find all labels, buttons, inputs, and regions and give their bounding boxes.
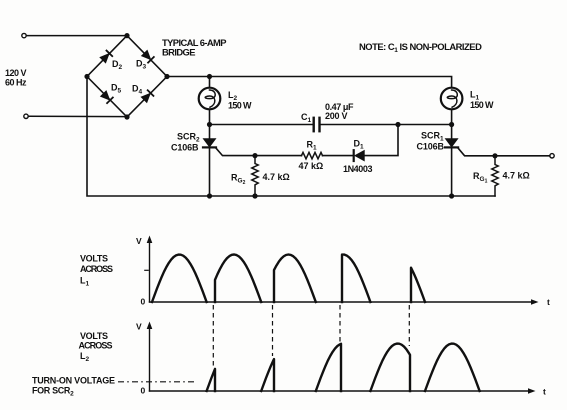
diode D3	[142, 50, 154, 62]
label VOLTS ACROSS L1	[80, 254, 113, 288]
label 0.47 uF 200 V	[325, 102, 354, 121]
label TYPICAL 6-AMP BRIDGE	[162, 37, 227, 58]
waveform L1 pulse 2	[215, 255, 261, 303]
svg-text:ACROSS: ACROSS	[80, 264, 113, 274]
svg-text:t: t	[543, 387, 546, 397]
wire D1 to C1 wire	[364, 125, 398, 156]
label t axis plot 1	[547, 297, 550, 307]
svg-text:ACROSS: ACROSS	[79, 340, 113, 350]
tick plot 1 y-axis mid	[145, 269, 148, 271]
label 0 plot 2	[141, 386, 146, 396]
lamp L1	[441, 88, 463, 110]
waveform L1 pulse 1	[152, 255, 207, 302]
waveform L1 pulse 3	[274, 255, 316, 303]
svg-text:t: t	[547, 297, 550, 307]
label D1	[354, 139, 365, 151]
SCR1 Q	[445, 125, 458, 197]
waveform L2 pulse 2	[261, 359, 274, 391]
node top rail L2 branch	[207, 74, 212, 79]
svg-text:1N4003: 1N4003	[343, 164, 373, 174]
label C1	[301, 112, 312, 124]
plot 1 x-axis	[150, 299, 539, 305]
svg-text:0: 0	[141, 386, 146, 396]
label VOLTS ACROSS L2	[79, 331, 113, 363]
resistor RG2	[252, 156, 258, 196]
SCR2 Q	[203, 125, 216, 197]
node D1 branch junction	[395, 122, 400, 127]
svg-text:VOLTS: VOLTS	[80, 331, 108, 341]
wire top input to bridge top node	[26, 35, 127, 37]
label t axis plot 2	[543, 387, 546, 397]
wire turn-on voltage dash-dot level line	[118, 381, 194, 383]
diode D2	[100, 51, 112, 63]
svg-text:4.7 kΩ: 4.7 kΩ	[263, 172, 290, 182]
svg-text:BRIDGE: BRIDGE	[162, 46, 196, 57]
label L2 150 W	[228, 90, 252, 111]
label V axis plot 2	[136, 322, 142, 332]
label SCR1 C106B	[417, 130, 445, 151]
svg-text:60 Hz: 60 Hz	[5, 78, 27, 88]
diode D4	[141, 90, 153, 102]
wire C1 left segment	[210, 124, 314, 126]
node bridge left junction	[84, 74, 89, 79]
wire R1 to D1	[323, 155, 354, 157]
wire L1 to anode node	[451, 109, 453, 124]
wire dashed timing line 1	[212, 305, 214, 367]
resistor RG1	[492, 156, 498, 196]
label R1	[307, 140, 318, 152]
capacitor C1	[314, 118, 320, 131]
node RG1 top junction	[492, 153, 497, 158]
diode D5	[101, 91, 113, 103]
label R1 value 47 kOhm	[299, 161, 324, 171]
label V axis plot 1	[136, 236, 142, 246]
diode D1	[354, 150, 365, 161]
node RG2 top junction	[252, 153, 257, 158]
svg-text:120 V: 120 V	[5, 68, 27, 78]
waveform L1 pulse 5	[411, 268, 425, 302]
plot 2 y-axis	[147, 322, 153, 392]
lamp L2	[199, 88, 221, 110]
label D5	[111, 83, 122, 95]
wire L2 to anode node	[209, 109, 211, 124]
svg-text:V: V	[136, 322, 142, 332]
label 120 V 60 Hz source	[5, 68, 27, 88]
svg-text:C106B: C106B	[171, 142, 199, 152]
label RG1 value 4.7 kOhm	[503, 171, 530, 181]
svg-text:200 V: 200 V	[325, 111, 348, 121]
svg-text:V: V	[136, 236, 142, 246]
node SCR2 anode / C1 wire junction	[207, 122, 212, 127]
node SCR2 cathode on rail	[207, 193, 212, 198]
label L1 150 W	[470, 90, 494, 111]
label NOTE: C1 IS NON-POLARIZED	[359, 41, 482, 54]
wire DC minus: bridge left node down and bottom rail	[87, 77, 495, 197]
label D2	[112, 59, 123, 71]
AC input terminal bottom	[24, 114, 28, 118]
label 1N4003	[343, 164, 373, 174]
wire DC plus top rail	[167, 77, 452, 88]
wire bottom input to bridge bottom node	[28, 115, 127, 117]
wire SCR1 gate to output terminal	[458, 148, 550, 156]
wire L2 branch down	[209, 77, 211, 88]
waveform L2 pulse 4	[370, 344, 410, 391]
AC input terminal top	[22, 33, 26, 37]
node bridge bottom junction	[124, 114, 129, 119]
wire SCR2 gate	[216, 148, 302, 156]
wire dashed timing line 3	[339, 305, 341, 345]
label RG2 value 4.7 kOhm	[263, 172, 290, 182]
label SCR2 C106B	[171, 132, 200, 153]
label RG1	[473, 171, 488, 185]
svg-text:150 W: 150 W	[470, 100, 494, 110]
label RG2	[231, 173, 246, 187]
label 0 plot 1	[141, 297, 146, 307]
svg-text:4.7 kΩ: 4.7 kΩ	[503, 171, 530, 181]
waveform L2 pulse 3	[316, 344, 341, 391]
plot 1 y-axis	[147, 236, 153, 303]
waveform L2 pulse 1	[207, 369, 215, 391]
svg-text:0: 0	[141, 297, 146, 307]
svg-text:150 W: 150 W	[228, 101, 252, 111]
svg-text:TURN-ON VOLTAGE: TURN-ON VOLTAGE	[32, 376, 115, 386]
svg-text:47 kΩ: 47 kΩ	[299, 161, 324, 171]
plot 2 x-axis	[150, 388, 536, 394]
wire C1 right segment	[320, 124, 451, 126]
label TURN-ON VOLTAGE FOR SCR2	[32, 376, 115, 398]
label D3	[136, 59, 147, 71]
label D4	[132, 83, 143, 95]
output terminal	[550, 154, 554, 158]
wire dashed timing line 2	[272, 305, 274, 356]
svg-text:C106B: C106B	[417, 141, 445, 151]
node bridge top junction	[124, 33, 129, 38]
node SCR1 anode junction	[449, 122, 454, 127]
node SCR1 cathode on rail	[449, 193, 454, 198]
node RG2 bottom on rail	[252, 193, 257, 198]
node bridge right junction	[164, 74, 169, 79]
resistor R1	[302, 152, 323, 158]
wire dashed timing line 4	[408, 305, 410, 346]
svg-text:VOLTS: VOLTS	[80, 254, 108, 264]
waveform L2 pulse 5	[425, 344, 480, 391]
waveform L1 pulse 4	[342, 255, 370, 302]
wire bridge diamond	[87, 36, 167, 117]
